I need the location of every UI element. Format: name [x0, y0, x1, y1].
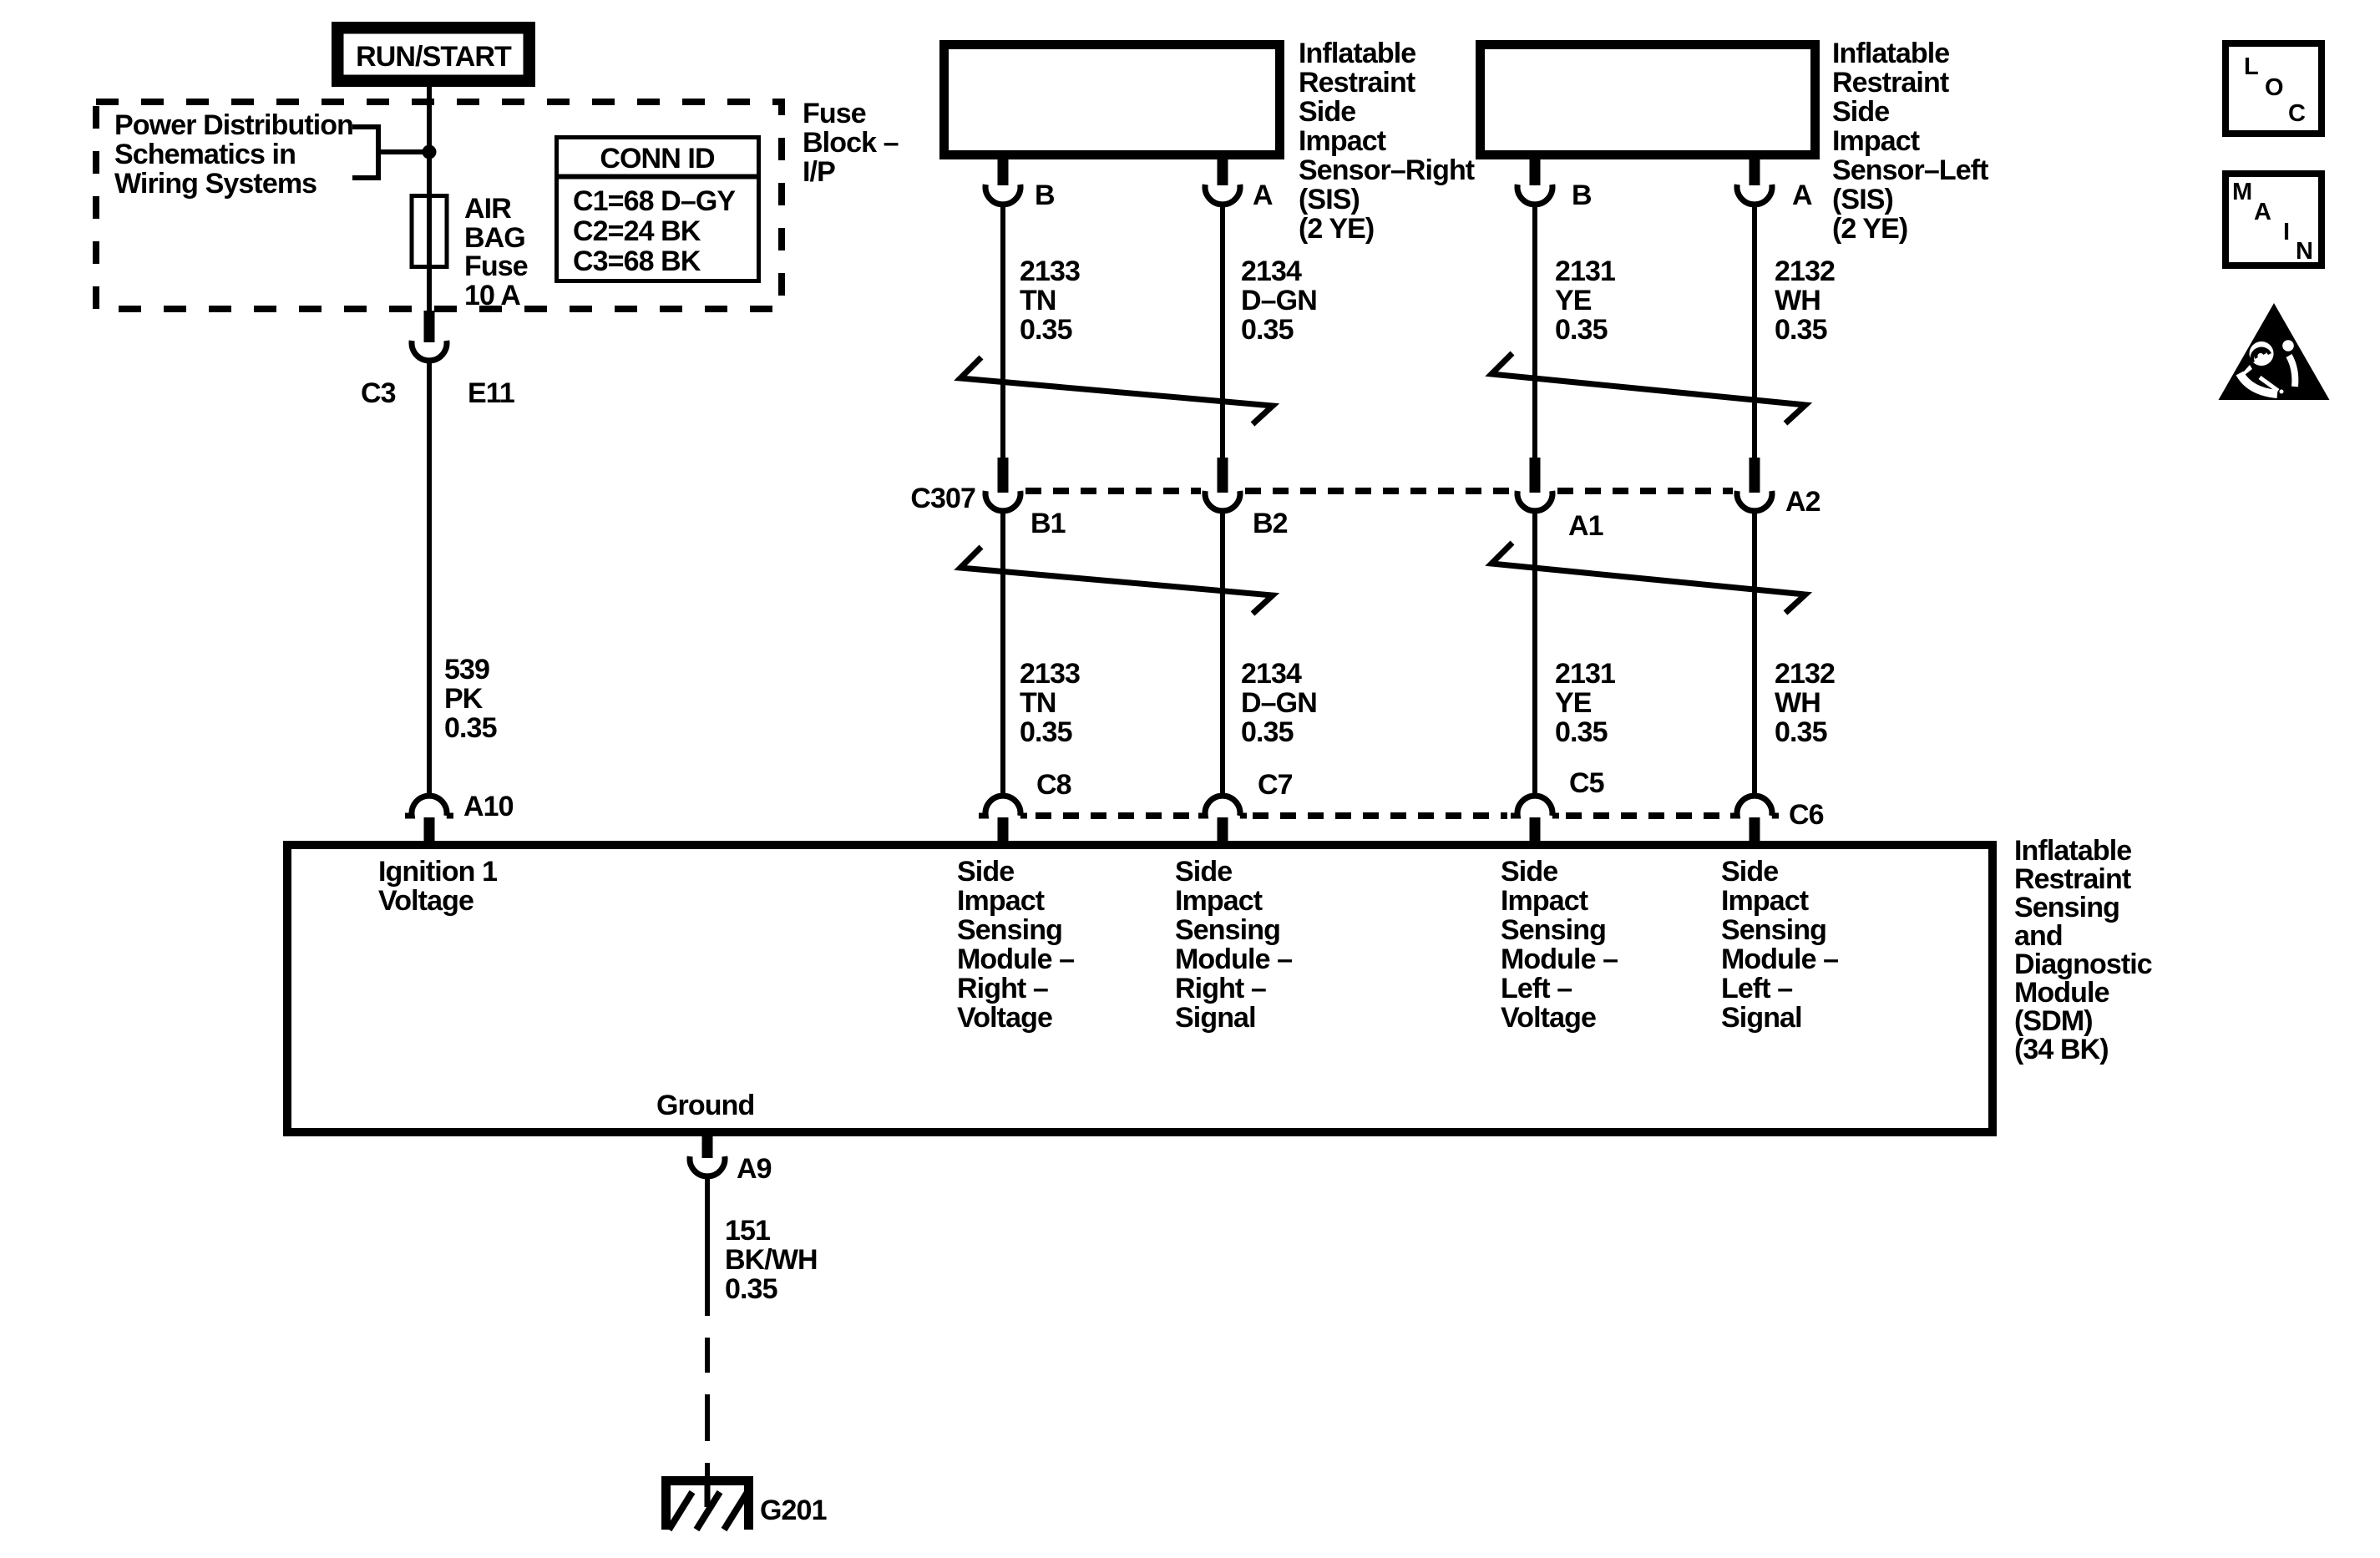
SDM box	[287, 845, 1993, 1132]
wire 151 BK/WH dashed	[705, 1316, 710, 1480]
svg-text:Impact: Impact	[1501, 885, 1588, 917]
svg-text:0.35: 0.35	[1555, 716, 1608, 748]
svg-text:L: L	[2244, 53, 2258, 80]
pin C8	[979, 769, 1071, 846]
svg-text:0.35: 0.35	[1241, 716, 1294, 748]
wire 2133 TN lower	[1000, 508, 1005, 798]
svg-text:Module: Module	[2014, 977, 2109, 1009]
svg-text:Side: Side	[1832, 96, 1889, 128]
svg-text:Ground: Ground	[656, 1090, 754, 1121]
fuse AIR BAG 10 A	[412, 196, 447, 267]
wire 2131 YE lower	[1532, 508, 1537, 798]
svg-text:0.35: 0.35	[1775, 314, 1827, 346]
svg-text:Block –: Block –	[803, 127, 899, 159]
svg-text:Sensor–Right: Sensor–Right	[1299, 154, 1475, 186]
svg-text:Left –: Left –	[1721, 973, 1792, 1004]
svg-text:C3=68 BK: C3=68 BK	[573, 245, 701, 277]
svg-text:C7: C7	[1258, 769, 1293, 801]
pin B left sensor	[1517, 159, 1592, 211]
wire 2132 WH upper	[1752, 202, 1757, 461]
svg-text:PK: PK	[444, 683, 484, 715]
svg-text:Impact: Impact	[1721, 885, 1809, 917]
pin C7	[1198, 769, 1293, 846]
label Inflatable Restraint Side Impact Sensor-Left	[1832, 38, 1988, 245]
svg-text:Sensing: Sensing	[1501, 914, 1606, 946]
svg-text:G201: G201	[760, 1495, 827, 1526]
dashed connector line SDM row	[1036, 812, 1727, 819]
svg-text:C: C	[2288, 100, 2306, 127]
svg-text:Inflatable: Inflatable	[1299, 38, 1415, 69]
label SDM pin C6 function	[1721, 856, 1838, 1034]
svg-text:Fuse: Fuse	[803, 98, 866, 129]
ground G201	[661, 1476, 827, 1530]
ignition switch RUN/START	[337, 28, 529, 81]
svg-text:Voltage: Voltage	[957, 1002, 1052, 1034]
label 151 BK/WH 0.35	[725, 1215, 818, 1305]
svg-text:Right –: Right –	[957, 973, 1048, 1004]
junction dot	[423, 145, 437, 159]
MAIN reference box	[2226, 174, 2322, 266]
pin A9	[690, 1136, 772, 1185]
svg-text:Side: Side	[957, 856, 1014, 888]
wire 2134 D-GN lower	[1220, 508, 1225, 798]
svg-text:C5: C5	[1569, 767, 1604, 799]
label 2133 TN 0.35 upper	[1020, 255, 1080, 346]
SIS sensor right box	[944, 45, 1280, 155]
label 2133 TN 0.35 lower	[1020, 658, 1080, 748]
wire 2132 WH lower	[1752, 508, 1757, 798]
svg-text:2133: 2133	[1020, 658, 1080, 690]
svg-text:A10: A10	[463, 791, 514, 822]
label SDM pin C5 function	[1501, 856, 1618, 1034]
svg-text:C3: C3	[361, 377, 396, 409]
svg-text:D–GN: D–GN	[1241, 285, 1317, 316]
pin A right sensor	[1205, 159, 1273, 211]
svg-text:Power Distribution: Power Distribution	[114, 109, 353, 141]
svg-text:RUN/START: RUN/START	[356, 41, 512, 73]
svg-text:C6: C6	[1789, 799, 1824, 831]
svg-text:A: A	[1792, 180, 1812, 211]
svg-text:0.35: 0.35	[444, 712, 497, 744]
svg-text:Module –: Module –	[1721, 943, 1838, 975]
label 2134 D-GN 0.35 lower	[1241, 658, 1317, 748]
svg-text:2132: 2132	[1775, 658, 1835, 690]
svg-text:2134: 2134	[1241, 658, 1302, 690]
svg-text:Schematics in: Schematics in	[114, 139, 296, 170]
label AIR BAG Fuse 10 A	[464, 193, 528, 311]
pin B right sensor	[985, 159, 1055, 211]
label SDM module name	[2014, 835, 2152, 1065]
svg-text:Diagnostic: Diagnostic	[2014, 948, 2152, 980]
svg-text:I: I	[2283, 219, 2290, 245]
svg-text:A: A	[1253, 180, 1273, 211]
svg-text:O: O	[2265, 74, 2283, 101]
label 539 PK 0.35	[444, 654, 497, 744]
note Power Distribution Schematics in Wiring Systems	[114, 109, 353, 200]
svg-text:(SIS): (SIS)	[1299, 184, 1360, 215]
label 2134 D-GN 0.35 upper	[1241, 255, 1317, 346]
label Ignition 1 Voltage	[378, 856, 497, 917]
svg-text:C8: C8	[1036, 769, 1071, 801]
svg-text:YE: YE	[1555, 687, 1592, 719]
svg-text:Signal: Signal	[1175, 1002, 1256, 1034]
svg-text:Side: Side	[1721, 856, 1778, 888]
label 2132 WH 0.35 lower	[1775, 658, 1835, 748]
LOC reference box	[2226, 43, 2322, 134]
off-page arrow upper left pair	[960, 357, 1273, 424]
svg-text:Sensing: Sensing	[1175, 914, 1280, 946]
svg-text:2132: 2132	[1775, 255, 1835, 287]
svg-text:A2: A2	[1785, 486, 1820, 518]
pin A1	[1517, 458, 1603, 542]
svg-text:Inflatable: Inflatable	[1832, 38, 1949, 69]
svg-text:Wiring Systems: Wiring Systems	[114, 168, 316, 200]
svg-text:Fuse: Fuse	[464, 250, 528, 282]
label 2131 YE 0.35 upper	[1555, 255, 1615, 346]
svg-text:Impact: Impact	[957, 885, 1045, 917]
wire 2134 D-GN upper	[1220, 202, 1225, 461]
svg-text:WH: WH	[1775, 687, 1820, 719]
svg-text:Restraint: Restraint	[2014, 863, 2131, 895]
svg-text:B2: B2	[1253, 508, 1288, 539]
bracket to wire	[352, 124, 426, 180]
svg-text:Side: Side	[1299, 96, 1355, 128]
label Fuse Block - I/P	[803, 98, 899, 188]
svg-text:151: 151	[725, 1215, 770, 1247]
wire 2133 TN upper	[1000, 202, 1005, 461]
svg-text:Right –: Right –	[1175, 973, 1266, 1004]
svg-text:Side: Side	[1501, 856, 1557, 888]
svg-text:0.35: 0.35	[1241, 314, 1294, 346]
svg-text:B: B	[1572, 180, 1592, 211]
off-page arrow upper right pair	[1491, 353, 1805, 423]
pin C5	[1511, 767, 1604, 846]
dashed connector line C307	[1025, 488, 1733, 494]
svg-text:I/P: I/P	[803, 156, 835, 188]
svg-text:C1=68 D–GY: C1=68 D–GY	[573, 185, 736, 217]
svg-text:TN: TN	[1020, 285, 1056, 316]
pin A left sensor	[1737, 159, 1812, 211]
svg-text:Module –: Module –	[1175, 943, 1292, 975]
svg-text:BAG: BAG	[464, 222, 525, 254]
label Inflatable Restraint Side Impact Sensor-Right	[1299, 38, 1475, 245]
wire 539 PK	[427, 358, 432, 798]
svg-text:Restraint: Restraint	[1832, 67, 1949, 99]
label 2132 WH 0.35 upper	[1775, 255, 1835, 346]
svg-text:10 A: 10 A	[464, 280, 520, 311]
pin A10	[405, 791, 514, 846]
off-page arrow lower right pair	[1491, 543, 1805, 613]
svg-text:Sensing: Sensing	[1721, 914, 1826, 946]
svg-text:Sensing: Sensing	[957, 914, 1062, 946]
svg-text:A1: A1	[1568, 510, 1603, 542]
CONN ID table	[556, 138, 759, 281]
pin C6	[1730, 796, 1824, 846]
pin B2	[1205, 458, 1288, 539]
svg-text:Inflatable: Inflatable	[2014, 835, 2131, 867]
svg-text:2134: 2134	[1241, 255, 1302, 287]
svg-text:(2 YE): (2 YE)	[1299, 213, 1374, 245]
svg-text:and: and	[2014, 920, 2063, 952]
svg-text:Module –: Module –	[957, 943, 1074, 975]
pin B1	[985, 458, 1066, 539]
svg-text:Voltage: Voltage	[1501, 1002, 1596, 1034]
label SDM pin C8 function	[957, 856, 1074, 1034]
svg-text:BK/WH: BK/WH	[725, 1244, 818, 1276]
SIS sensor left box	[1481, 45, 1815, 155]
svg-text:539: 539	[444, 654, 489, 685]
svg-text:M: M	[2232, 179, 2252, 205]
svg-text:Restraint: Restraint	[1299, 67, 1415, 99]
svg-text:B: B	[1035, 180, 1055, 211]
wire 2131 YE upper	[1532, 202, 1537, 461]
svg-text:0.35: 0.35	[1020, 716, 1072, 748]
svg-text:(SIS): (SIS)	[1832, 184, 1893, 215]
svg-text:E11: E11	[468, 377, 514, 409]
svg-text:0.35: 0.35	[1555, 314, 1608, 346]
svg-text:Module –: Module –	[1501, 943, 1618, 975]
fuse block I/P dashed box	[96, 102, 782, 309]
svg-text:Impact: Impact	[1175, 885, 1263, 917]
svg-text:(SDM): (SDM)	[2014, 1005, 2093, 1037]
svg-text:(2 YE): (2 YE)	[1832, 213, 1907, 245]
svg-text:WH: WH	[1775, 285, 1820, 316]
svg-text:Sensor–Left: Sensor–Left	[1832, 154, 1988, 186]
svg-text:Sensing: Sensing	[2014, 892, 2119, 923]
label SDM pin C7 function	[1175, 856, 1292, 1034]
svg-text:(34 BK): (34 BK)	[2014, 1034, 2109, 1065]
svg-text:TN: TN	[1020, 687, 1056, 719]
svg-text:Signal: Signal	[1721, 1002, 1802, 1034]
svg-text:N: N	[2296, 238, 2312, 265]
svg-text:B1: B1	[1030, 508, 1066, 539]
SIR warning triangle	[2219, 303, 2330, 400]
svg-text:0.35: 0.35	[1020, 314, 1072, 346]
svg-text:Voltage: Voltage	[378, 885, 473, 917]
svg-text:CONN ID: CONN ID	[600, 143, 715, 175]
svg-text:D–GN: D–GN	[1241, 687, 1317, 719]
svg-text:C2=24 BK: C2=24 BK	[573, 215, 701, 247]
wire RUN/START through AIR BAG fuse to E11	[427, 87, 432, 312]
label 2131 YE 0.35 lower	[1555, 658, 1615, 748]
svg-text:A9: A9	[737, 1153, 772, 1185]
wire 151 BK/WH solid	[705, 1174, 710, 1316]
svg-text:Impact: Impact	[1299, 125, 1386, 157]
svg-text:2133: 2133	[1020, 255, 1080, 287]
off-page arrow lower left pair	[960, 547, 1273, 614]
svg-text:AIR: AIR	[464, 193, 511, 225]
svg-text:C307: C307	[910, 483, 975, 514]
svg-text:Ignition 1: Ignition 1	[378, 856, 497, 888]
pin A2	[1737, 458, 1820, 518]
svg-text:YE: YE	[1555, 285, 1592, 316]
svg-text:2131: 2131	[1555, 658, 1615, 690]
svg-text:2131: 2131	[1555, 255, 1615, 287]
svg-text:Side: Side	[1175, 856, 1232, 888]
connector C3 / E11	[361, 311, 514, 409]
svg-text:A: A	[2254, 199, 2271, 225]
svg-text:0.35: 0.35	[1775, 716, 1827, 748]
svg-text:0.35: 0.35	[725, 1273, 777, 1305]
svg-text:Left –: Left –	[1501, 973, 1572, 1004]
svg-text:Impact: Impact	[1832, 125, 1920, 157]
